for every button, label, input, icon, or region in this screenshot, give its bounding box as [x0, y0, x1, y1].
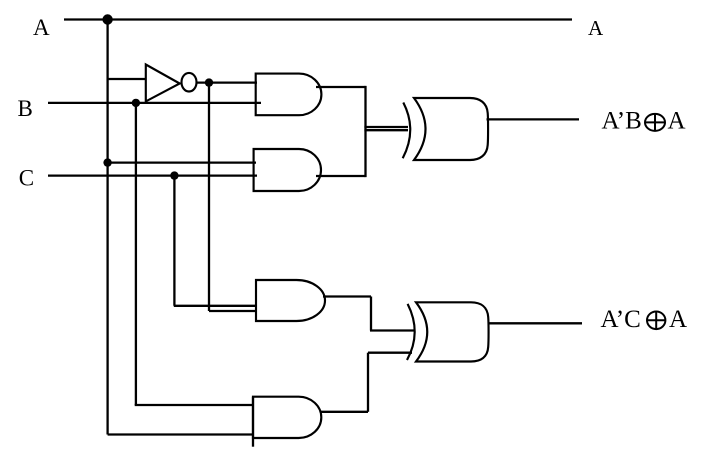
svg-text:A: A	[668, 108, 686, 135]
svg-text:C: C	[19, 165, 34, 190]
svg-text:B: B	[18, 96, 33, 121]
svg-text:A’C: A’C	[601, 306, 641, 333]
svg-text:A: A	[588, 16, 604, 40]
svg-text:A: A	[33, 15, 50, 40]
svg-text:A’B: A’B	[602, 108, 642, 135]
svg-text:A: A	[669, 306, 687, 333]
